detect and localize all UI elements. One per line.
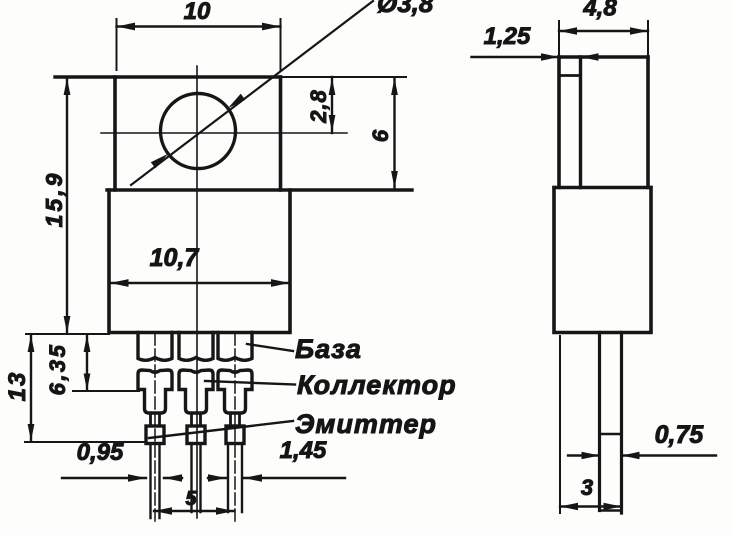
label leader Коллектор bbox=[205, 381, 295, 385]
side view tab left edge bbox=[557, 57, 561, 188]
lead 1 collector section bbox=[138, 370, 172, 413]
lead 1 narrow stem bbox=[151, 413, 160, 426]
dimension 1,45 line right part bbox=[244, 477, 345, 479]
lead 2 collector section bbox=[179, 370, 213, 413]
svg-text:0,95: 0,95 bbox=[77, 439, 124, 466]
dimension 4,8 line bbox=[559, 30, 648, 32]
dimension 2,8 line bbox=[331, 77, 333, 133]
extension line for 13 bottom bbox=[25, 441, 146, 443]
dimension 0,75 tail left bbox=[568, 454, 600, 456]
side view tab top edge bbox=[559, 55, 648, 58]
side view tab right edge bbox=[646, 57, 650, 188]
dimension 4,8 arrows bbox=[559, 27, 648, 35]
dimension 0,75 arrows bbox=[582, 452, 640, 460]
svg-text:Ø3,8: Ø3,8 bbox=[377, 0, 434, 18]
lead 1 level-1 section bbox=[138, 333, 172, 361]
label leader База bbox=[247, 344, 293, 351]
dimension 5 arrows bbox=[154, 507, 234, 515]
svg-text:5: 5 bbox=[185, 488, 197, 510]
lead 2 narrow stem bbox=[192, 413, 201, 426]
lead 3 bottom wire bbox=[228, 444, 242, 513]
lead 2 bottom wire bbox=[192, 444, 201, 513]
vertical centerline bbox=[196, 66, 198, 518]
dimension 0,95 arrows bbox=[128, 474, 182, 482]
leader arrow upper bbox=[228, 94, 245, 109]
svg-text:1,45: 1,45 bbox=[280, 437, 327, 464]
side view lead right edge bbox=[620, 333, 623, 514]
side view body top line bbox=[554, 186, 651, 189]
dimension 6,35 arrows bbox=[84, 335, 91, 391]
lead 3 narrow stem bbox=[231, 413, 240, 426]
body outline bbox=[109, 190, 290, 333]
leader arrow lower bbox=[151, 154, 168, 169]
svg-text:13: 13 bbox=[4, 371, 31, 402]
dimension 3 extension line bbox=[559, 336, 561, 513]
dimension 10,7 line bbox=[110, 282, 290, 284]
lead 1 emitter square bbox=[146, 426, 164, 444]
lead 3 emitter square bbox=[226, 426, 244, 444]
dimension 3 line bbox=[560, 505, 622, 507]
dimension 6 arrows bbox=[391, 78, 398, 188]
dimension 10 extension lines bbox=[117, 19, 281, 70]
tab right edge bbox=[279, 77, 283, 190]
svg-text:6: 6 bbox=[368, 129, 393, 142]
mounting hole circle bbox=[161, 94, 236, 169]
svg-text:1,25: 1,25 bbox=[484, 23, 531, 50]
dimension 0,95 line left part bbox=[62, 477, 146, 479]
svg-text:15,9: 15,9 bbox=[41, 171, 67, 228]
svg-text:4,8: 4,8 bbox=[582, 0, 617, 22]
dimension 15,9 arrows bbox=[64, 78, 71, 333]
lead 3 level-1 section bbox=[218, 333, 252, 361]
svg-text:3: 3 bbox=[581, 475, 593, 500]
dimension 1,45 tail left bbox=[208, 477, 226, 479]
svg-text:6,35: 6,35 bbox=[45, 343, 70, 396]
dimension 5 line bbox=[154, 510, 234, 512]
tab (front view) top edge with left extension bbox=[55, 75, 281, 78]
lead 3 centerline bbox=[234, 333, 236, 521]
lead 2 level-1 section bbox=[179, 333, 213, 361]
dimension 15,9 line bbox=[66, 78, 68, 333]
svg-text:10: 10 bbox=[184, 0, 211, 25]
svg-text:Эмиттер: Эмиттер bbox=[295, 409, 437, 439]
side view body outline bbox=[554, 188, 651, 333]
tab left edge bbox=[113, 77, 117, 190]
dimension 10 arrows bbox=[117, 23, 281, 31]
lead 3 collector section bbox=[218, 370, 252, 413]
extension of tab top to the right bbox=[281, 76, 407, 78]
label leader Эмиттер bbox=[149, 421, 293, 438]
dimension 1,25 arrows bbox=[541, 53, 599, 61]
side view lead left edge bbox=[598, 333, 601, 511]
dimension 13 arrows bbox=[28, 335, 35, 441]
dimension 6,35 line bbox=[86, 335, 88, 391]
dimension 1,45 arrows bbox=[208, 474, 262, 482]
svg-text:0,75: 0,75 bbox=[655, 421, 705, 449]
svg-text:Коллектор: Коллектор bbox=[297, 370, 457, 400]
dimension 10,7 arrows bbox=[110, 279, 290, 287]
dimension 0,95 tail right bbox=[164, 477, 182, 479]
side view strip bottom tick bbox=[559, 74, 581, 77]
side view lead bottom tick bbox=[600, 509, 622, 511]
svg-text:База: База bbox=[295, 334, 362, 364]
dimension 2,8 arrows bbox=[329, 78, 336, 132]
horizontal centerline of hole bbox=[101, 132, 347, 134]
side view lead step tick bbox=[600, 433, 622, 435]
body bottom extension line (left) bbox=[26, 333, 109, 335]
dimension 10 line bbox=[117, 25, 281, 27]
svg-text:10,7: 10,7 bbox=[150, 244, 200, 272]
svg-text:2,8: 2,8 bbox=[306, 89, 331, 124]
dimension 4,8 extension lines bbox=[559, 21, 648, 55]
dimension 13 line bbox=[30, 335, 32, 442]
dimension 1,25 tail left bbox=[472, 56, 560, 58]
extension line for 6,35 bottom bbox=[73, 390, 139, 392]
dimension 3 arrows bbox=[560, 503, 622, 511]
lead 1 centerline bbox=[154, 333, 156, 521]
side view tab inner line bbox=[579, 57, 582, 188]
dimension 1,25 tail right bbox=[581, 56, 640, 58]
dimension 0,75 tail right bbox=[622, 454, 717, 456]
hole diameter leader line bbox=[131, 1, 373, 185]
tab bottom / body top line with right extension bbox=[107, 188, 412, 191]
lead 2 emitter square bbox=[187, 426, 205, 444]
lead 1 bottom wire bbox=[151, 444, 160, 519]
dimension 6 line bbox=[393, 78, 395, 188]
